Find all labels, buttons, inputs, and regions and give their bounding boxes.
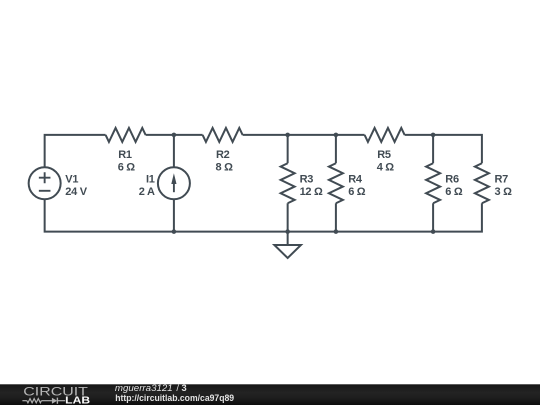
logo wire lead left bbox=[22, 400, 27, 402]
wire top lead of R4 bbox=[335, 135, 337, 163]
node A junction dot bbox=[172, 133, 177, 138]
resistor R7 bbox=[475, 163, 489, 203]
logo diode bar bbox=[56, 398, 58, 404]
node B junction dot (R3 top) bbox=[285, 133, 290, 138]
wire top lead of R6 bbox=[432, 135, 434, 163]
logo wire lead right bbox=[58, 400, 65, 402]
wire bottom lead of R6 bbox=[432, 203, 434, 231]
svg-text:I1: I1 bbox=[146, 173, 155, 185]
node C junction dot (R4 top) bbox=[334, 133, 339, 138]
svg-text:6 Ω: 6 Ω bbox=[348, 186, 366, 198]
svg-text:3 Ω: 3 Ω bbox=[495, 186, 513, 198]
svg-text:4 Ω: 4 Ω bbox=[377, 162, 395, 174]
svg-text:http://circuitlab.com/ca97q89: http://circuitlab.com/ca97q89 bbox=[115, 393, 234, 403]
resistor R5 bbox=[365, 128, 405, 142]
svg-text:LAB: LAB bbox=[65, 395, 90, 405]
svg-text:8 Ω: 8 Ω bbox=[216, 162, 234, 174]
node F junction dot (ground / R3 bottom) bbox=[285, 229, 290, 234]
wire bottom lead of R3 bbox=[287, 203, 289, 231]
svg-text:2 A: 2 A bbox=[139, 186, 155, 198]
wire top rail: V1 top corner to R1 bbox=[45, 135, 106, 167]
svg-text:R5: R5 bbox=[377, 149, 391, 161]
resistor R3 bbox=[281, 163, 295, 203]
svg-text:24 V: 24 V bbox=[65, 186, 87, 198]
node H junction dot (R6 bottom) bbox=[431, 229, 436, 234]
svg-text:V1: V1 bbox=[65, 173, 78, 185]
wire bottom lead of R4 bbox=[335, 203, 337, 231]
footer bar bbox=[0, 384, 540, 405]
svg-text:R1: R1 bbox=[118, 149, 132, 161]
node G junction dot (R4 bottom) bbox=[334, 229, 339, 234]
svg-text:6 Ω: 6 Ω bbox=[118, 162, 136, 174]
node E junction dot (I1 bottom) bbox=[172, 229, 177, 234]
svg-text:R4: R4 bbox=[348, 173, 363, 185]
svg-text:R2: R2 bbox=[216, 149, 230, 161]
wire top lead of R3 bbox=[287, 135, 289, 163]
node D junction dot (R6 top) bbox=[431, 133, 436, 138]
svg-text:R3: R3 bbox=[300, 173, 314, 185]
logo resistor zigzag bbox=[27, 399, 41, 403]
svg-text:mguerra3121: mguerra3121 bbox=[115, 383, 173, 393]
svg-text:12 Ω: 12 Ω bbox=[300, 186, 323, 198]
resistor R4 bbox=[329, 163, 343, 203]
V1 minus sign bbox=[39, 190, 51, 192]
wire bottom lead of I1 bbox=[173, 199, 175, 231]
ground stub wire bbox=[287, 232, 289, 245]
I1 arrow shaft bbox=[173, 184, 175, 193]
voltage source V1 bbox=[29, 167, 61, 199]
svg-text:6 Ω: 6 Ω bbox=[445, 186, 463, 198]
logo wire to diode bbox=[41, 400, 52, 402]
resistor R2 bbox=[203, 128, 243, 142]
logo diode triangle bbox=[52, 398, 57, 404]
wire R5 to top right corner and down to R7 bbox=[405, 135, 482, 163]
svg-text:3: 3 bbox=[182, 383, 187, 393]
current source I1 bbox=[158, 167, 190, 199]
resistor R1 bbox=[106, 128, 146, 142]
svg-text:/: / bbox=[176, 383, 179, 393]
wire node A to R2 bbox=[174, 134, 203, 136]
wire R1 to node A bbox=[146, 134, 174, 136]
svg-text:R7: R7 bbox=[495, 173, 509, 185]
svg-text:R6: R6 bbox=[445, 173, 459, 185]
I1 arrow head bbox=[171, 173, 176, 184]
ground bbox=[274, 245, 301, 258]
resistor R6 bbox=[426, 163, 440, 203]
wire R2 to R5 through nodes B and C bbox=[243, 134, 365, 136]
wire bottom rail from R7 around to V1 bbox=[45, 199, 482, 231]
wire top lead of I1 bbox=[173, 135, 175, 167]
V1 plus sign bbox=[39, 172, 51, 183]
